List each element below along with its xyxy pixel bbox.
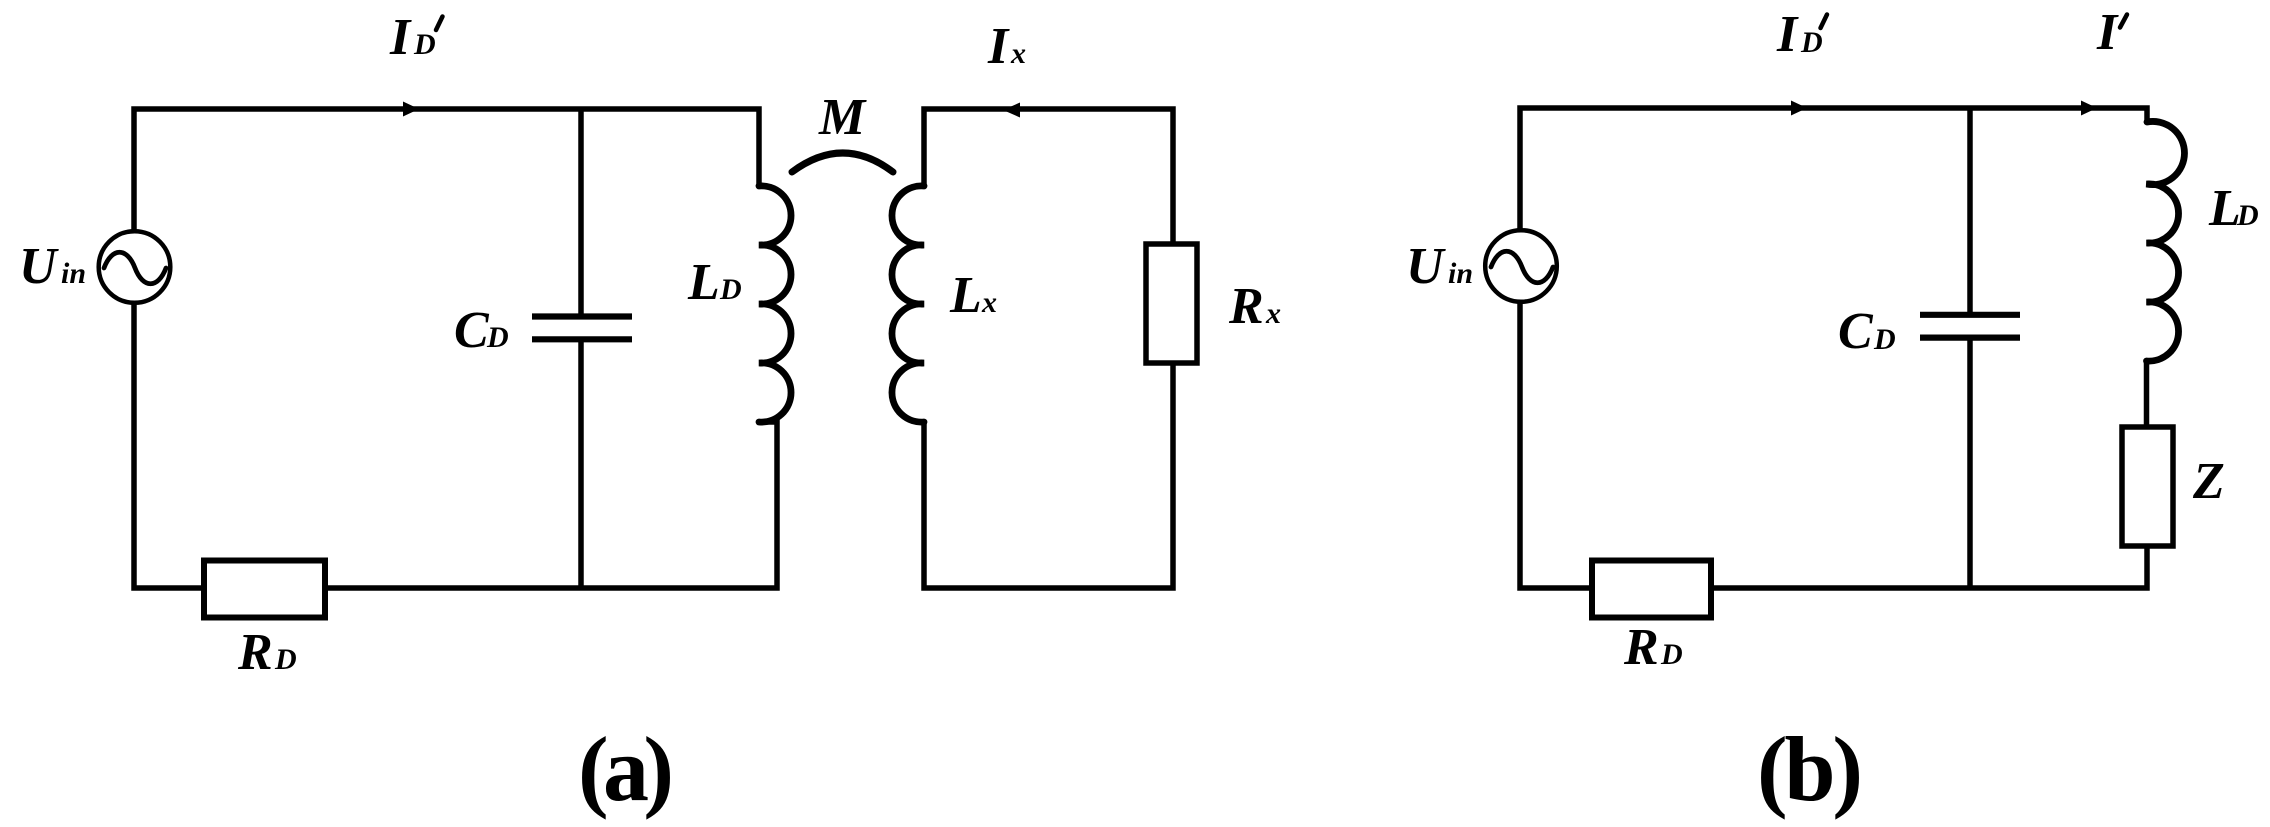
svg-text:D: D [719,273,742,306]
svg-text:C: C [454,302,490,359]
capacitor C_D plates (b) [1920,315,2020,338]
svg-text:I: I [987,18,1010,75]
svg-text:in: in [61,257,86,290]
svg-text:U: U [19,238,59,295]
wire Z-L_D stub [2144,361,2150,430]
svg-text:x: x [981,286,997,319]
wire primary-loop-a left+top [134,109,759,588]
source U_in (b) [1485,230,1557,302]
wire primary-loop-b left+top [1520,108,2147,588]
inductor L_D (a) [759,186,791,422]
impedance Z box [2122,427,2173,546]
wire capacitor branch bottom [578,341,584,588]
resistor R_D (a) [204,561,325,618]
wire secondary-loop-a [924,109,1173,588]
svg-text:R: R [237,624,273,681]
arrow I' (b) [2081,101,2097,116]
resistor R_D (b) [1592,561,1711,618]
svg-text:Z: Z [2192,453,2225,510]
svg-text:D: D [486,321,509,354]
svg-text:L: L [949,267,982,324]
svg-text:D: D [413,28,436,61]
resistor R_x [1146,244,1197,363]
wire capacitor branch b top [1967,108,1973,312]
svg-text:R: R [1228,278,1264,335]
svg-text:D: D [1800,26,1823,59]
svg-text:U: U [1406,238,1446,295]
arrow I_D' [403,102,419,117]
wire capacitor branch top [578,109,584,314]
source U_in (a) [99,231,171,303]
svg-text:(b): (b) [1757,718,1863,820]
svg-text:in: in [1448,257,1473,290]
svg-text:L: L [2208,180,2241,237]
svg-text:M: M [818,89,867,146]
svg-text:I: I [1776,6,1799,63]
mutual inductance arc M [792,153,893,172]
arrow I_x [1003,103,1020,118]
svg-text:I: I [389,9,412,66]
svg-text:x: x [1010,37,1026,70]
wire primary-loop-b bottom-right [1711,543,2147,588]
capacitor C1 plates (a) [532,317,632,340]
svg-text:I: I [2096,4,2119,61]
svg-text:C: C [1838,303,1874,360]
svg-text:D: D [2236,199,2259,232]
wire primary-loop-a bottom-right [325,422,777,588]
svg-text:L: L [687,254,720,311]
svg-text:R: R [1623,619,1659,676]
wire capacitor branch b bottom [1967,339,1973,588]
svg-text:x: x [1265,297,1281,330]
svg-text:D: D [274,643,297,676]
svg-text:(a): (a) [578,718,674,820]
inductor L_x [892,186,924,422]
svg-text:D: D [1660,638,1683,671]
svg-text:D: D [1873,323,1896,356]
arrow I_D' (b) [1791,101,1807,116]
inductor L_D (b) [2147,121,2185,361]
